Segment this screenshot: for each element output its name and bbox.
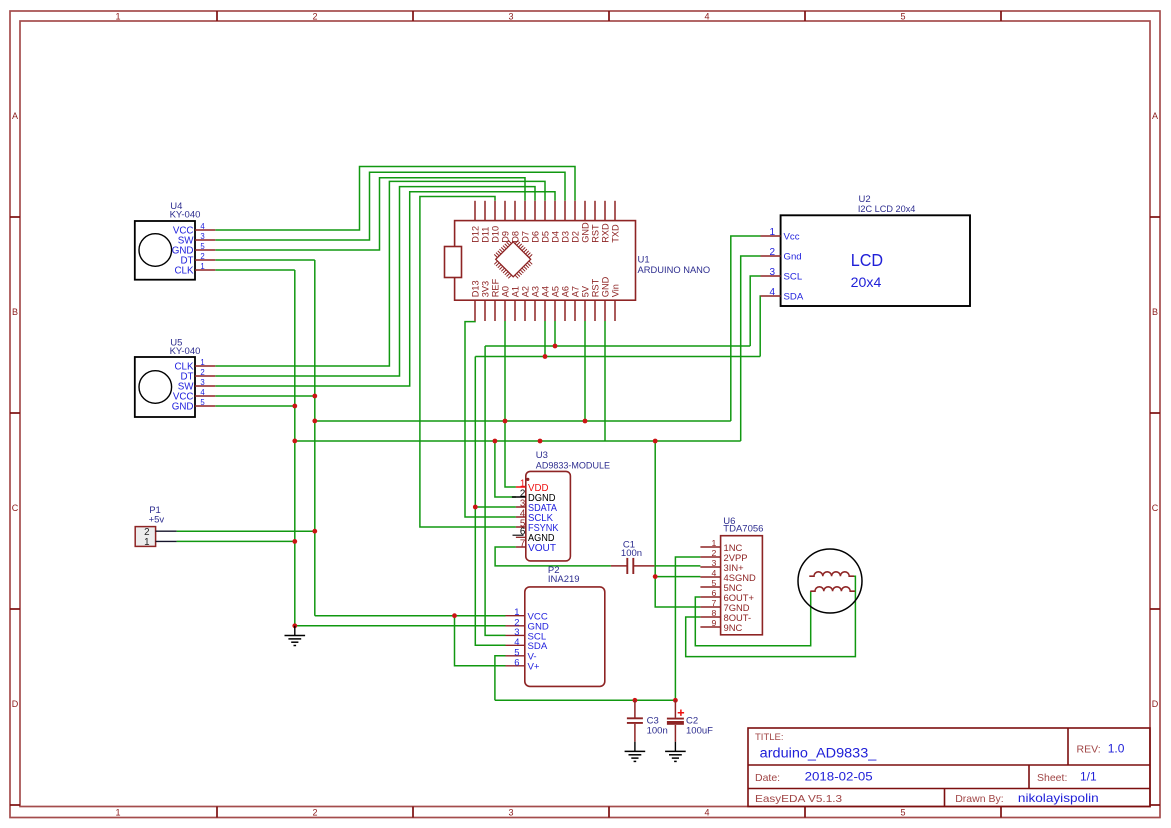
svg-text:1/1: 1/1 bbox=[1080, 770, 1097, 784]
U6 pin 7 7GND bbox=[700, 606, 720, 608]
svg-text:C: C bbox=[1152, 503, 1159, 513]
svg-text:arduino_AD9833_: arduino_AD9833_ bbox=[760, 746, 877, 761]
svg-text:Drawn By:: Drawn By: bbox=[955, 793, 1003, 805]
U4 pin 3 SW bbox=[195, 239, 215, 241]
U6 pin 3 3IN+ bbox=[700, 566, 720, 568]
frame ruler tick right bbox=[1150, 216, 1160, 218]
U1 top pin D6 bbox=[534, 201, 536, 221]
svg-text:KY-040: KY-040 bbox=[170, 346, 201, 357]
U4 pin 5 GND bbox=[195, 249, 215, 251]
svg-text:TDA7056: TDA7056 bbox=[723, 524, 763, 535]
frame ruler tick top bbox=[804, 11, 806, 21]
svg-text:4: 4 bbox=[711, 568, 716, 578]
svg-text:D8: D8 bbox=[511, 231, 521, 243]
svg-text:A2: A2 bbox=[521, 286, 531, 297]
svg-text:100uF: 100uF bbox=[686, 726, 713, 737]
U1 top pin TXD bbox=[614, 201, 616, 221]
svg-text:B: B bbox=[12, 307, 18, 317]
svg-text:D4: D4 bbox=[551, 231, 561, 243]
svg-text:RST: RST bbox=[591, 224, 601, 243]
U2 pin 3 SCL bbox=[761, 275, 781, 277]
frame ruler tick bottom bbox=[216, 807, 218, 818]
wire VDD net horizontal y=421 bbox=[315, 420, 731, 422]
wire to P2.GND bbox=[295, 625, 506, 627]
wire U6.8OUT- to LS1 top coil bbox=[686, 576, 856, 656]
U4 pin 2 DT bbox=[195, 259, 215, 261]
svg-text:SDA: SDA bbox=[528, 641, 548, 652]
svg-text:GND: GND bbox=[172, 401, 194, 412]
U3 pin 3 SDATA bbox=[516, 506, 526, 508]
U3 pin 1 VDD bbox=[516, 486, 526, 488]
svg-text:4: 4 bbox=[200, 222, 205, 231]
svg-text:4: 4 bbox=[514, 636, 519, 647]
svg-text:D: D bbox=[1152, 699, 1159, 709]
wire U4.SW to U1.D3 bbox=[215, 172, 565, 240]
U1 top pin D10 bbox=[494, 201, 496, 221]
svg-text:D7: D7 bbox=[521, 231, 531, 243]
frame ruler tick top bbox=[412, 11, 414, 21]
U1 top pin D5 bbox=[544, 201, 546, 221]
wire P1.1 to GND-column bbox=[177, 540, 295, 542]
ground below C2 bbox=[674, 742, 676, 752]
junction bbox=[538, 439, 543, 444]
wire SCL net vertical to P2.SCL bbox=[485, 346, 505, 635]
svg-text:A3: A3 bbox=[531, 286, 541, 297]
frame ruler tick top bbox=[1000, 11, 1002, 21]
wire U1.A5 down bbox=[554, 321, 556, 346]
svg-text:6: 6 bbox=[514, 656, 519, 667]
wire U5.SW to U1.D4 bbox=[215, 192, 555, 386]
junction bbox=[312, 419, 317, 424]
svg-text:A4: A4 bbox=[541, 286, 551, 297]
svg-text:D5: D5 bbox=[541, 231, 551, 243]
U6 pin 8 8OUT- bbox=[700, 616, 720, 618]
svg-text:2: 2 bbox=[770, 247, 776, 258]
svg-text:3V3: 3V3 bbox=[481, 281, 491, 297]
connector P1 +5v body bbox=[135, 527, 155, 547]
P2 pin 2 GND bbox=[506, 625, 525, 627]
amplifier U6 TDA7056 body bbox=[721, 536, 763, 635]
junction bbox=[543, 354, 548, 359]
svg-text:D12: D12 bbox=[471, 226, 481, 243]
frame ruler tick left bbox=[10, 608, 20, 610]
svg-text:A1: A1 bbox=[511, 286, 521, 297]
svg-text:EasyEDA V5.1.3: EasyEDA V5.1.3 bbox=[755, 793, 842, 805]
svg-text:D11: D11 bbox=[481, 227, 491, 243]
junction bbox=[583, 419, 588, 424]
svg-text:REV:: REV: bbox=[1077, 744, 1101, 756]
U2 pin 1 Vcc bbox=[761, 235, 781, 237]
wire SDA net horizontal y=356.5 bbox=[475, 356, 760, 358]
svg-text:D13: D13 bbox=[471, 280, 481, 297]
frame ruler tick right bbox=[1150, 412, 1160, 414]
wire U4.GND to U1.D7 bbox=[215, 178, 525, 250]
svg-text:2: 2 bbox=[711, 548, 716, 558]
U1 crystal rectangle bbox=[445, 247, 462, 278]
wire U4.CLK horizontal bbox=[215, 269, 294, 271]
svg-text:7: 7 bbox=[520, 539, 525, 550]
U4 knob circle bbox=[139, 234, 172, 267]
wire GND net to U6.7GND bbox=[655, 441, 700, 607]
svg-text:1: 1 bbox=[200, 358, 204, 367]
svg-text:D6: D6 bbox=[531, 231, 541, 243]
svg-text:3: 3 bbox=[770, 267, 776, 278]
svg-text:AD9833-MODULE: AD9833-MODULE bbox=[536, 460, 610, 471]
svg-text:1: 1 bbox=[770, 227, 776, 238]
svg-text:D: D bbox=[12, 699, 19, 709]
svg-text:2: 2 bbox=[200, 368, 204, 377]
P2 pin 6 V+ bbox=[506, 665, 525, 667]
junction bbox=[653, 574, 658, 579]
wire U1.D10 to U3.FSYNK bbox=[420, 197, 516, 528]
capacitor C1 plates bbox=[626, 558, 628, 574]
wire U1.GND down bbox=[604, 321, 606, 441]
svg-text:9: 9 bbox=[711, 618, 716, 628]
svg-text:RXD: RXD bbox=[601, 223, 611, 243]
wire U3.VOUT to C1 bbox=[495, 547, 611, 566]
svg-text:5: 5 bbox=[200, 398, 205, 407]
svg-text:Vin: Vin bbox=[611, 284, 621, 297]
U1 top pin RXD bbox=[604, 201, 606, 221]
svg-text:2018-02-05: 2018-02-05 bbox=[805, 770, 873, 784]
wire GND net to U6.4SGND bbox=[655, 576, 700, 578]
wire U1.D13 to U3.SCLK bbox=[465, 321, 516, 517]
wire P2.VCC row to P2.V+ bbox=[455, 616, 506, 666]
wire U5.CLK to U1.D5 bbox=[215, 181, 545, 366]
wire U1.A4 down bbox=[544, 321, 546, 357]
wire SCL net horizontal y=346 bbox=[485, 345, 750, 347]
P2 pin 1 VCC bbox=[506, 615, 525, 617]
title block border bbox=[748, 728, 1150, 807]
svg-text:GND: GND bbox=[581, 222, 591, 243]
junction bbox=[493, 439, 498, 444]
U5 pin 5 GND bbox=[195, 405, 215, 407]
wire SDA net to U3.SDATA bbox=[475, 506, 516, 508]
junction bbox=[452, 613, 457, 618]
frame ruler tick bottom bbox=[804, 807, 806, 818]
op-amp U1 ARDUINO NANO body bbox=[455, 221, 636, 301]
capacitor C2 polarized bbox=[674, 700, 676, 718]
svg-text:5: 5 bbox=[200, 242, 205, 251]
frame ruler tick right bbox=[1150, 608, 1160, 610]
wire U5.GND to GND-column bbox=[215, 405, 294, 407]
U5 pin 4 VCC bbox=[195, 395, 215, 397]
U1 bottom pin A0 bbox=[504, 300, 506, 321]
frame ruler tick bottom bbox=[1000, 807, 1002, 818]
U1 top pin D3 bbox=[564, 201, 566, 221]
svg-text:2: 2 bbox=[312, 12, 317, 22]
svg-text:nikolayispolin: nikolayispolin bbox=[1018, 791, 1099, 805]
U1 top pin D4 bbox=[554, 201, 556, 221]
svg-text:C: C bbox=[12, 503, 19, 513]
wire GND net to U2.Gnd bbox=[741, 256, 761, 441]
svg-text:Sheet:: Sheet: bbox=[1037, 772, 1067, 784]
wire to P2.VCC bbox=[315, 615, 506, 617]
U6 pin 6 6OUT+ bbox=[700, 596, 720, 598]
svg-text:6: 6 bbox=[711, 588, 716, 598]
U3 pin1 marker dot bbox=[526, 478, 529, 481]
svg-text:4: 4 bbox=[704, 808, 709, 818]
svg-text:A6: A6 bbox=[561, 286, 571, 297]
svg-text:KY-040: KY-040 bbox=[170, 210, 201, 221]
U1 bottom pin 3V3 bbox=[484, 300, 486, 321]
svg-text:TXD: TXD bbox=[611, 224, 621, 243]
svg-text:100n: 100n bbox=[647, 726, 668, 737]
U5 knob circle bbox=[139, 371, 172, 404]
P2 pin 4 SDA bbox=[506, 644, 525, 646]
frame ruler tick bottom bbox=[412, 807, 414, 818]
P1 pin 2 bbox=[156, 530, 177, 532]
svg-text:GND: GND bbox=[601, 276, 611, 297]
P2 pin 5 V- bbox=[506, 655, 525, 657]
svg-text:7: 7 bbox=[711, 598, 716, 608]
wire U5.VCC to VCC-column bbox=[215, 395, 314, 397]
svg-text:2: 2 bbox=[312, 808, 317, 818]
frame ruler tick left bbox=[10, 804, 20, 806]
wire SCL net to U2.SCL bbox=[750, 276, 760, 346]
U1 chip diamond bbox=[496, 242, 531, 277]
wire U6.2VPP down to cap rail bbox=[675, 557, 700, 700]
svg-text:1: 1 bbox=[200, 262, 204, 271]
capacitor C1 lead left bbox=[611, 565, 627, 567]
junction bbox=[673, 698, 678, 703]
junction bbox=[312, 394, 317, 399]
U3 pin 5 FSYNK bbox=[516, 526, 526, 528]
wire P1.2 to VCC-column bbox=[177, 530, 315, 532]
wire U6.6OUT+ to LS1 bottom coil bbox=[695, 591, 810, 646]
wire cap rail y=700.3 bbox=[495, 699, 676, 701]
U6 pin 2 2VPP bbox=[700, 556, 720, 558]
svg-text:SDA: SDA bbox=[784, 291, 804, 302]
svg-text:RST: RST bbox=[591, 278, 601, 297]
junction bbox=[312, 529, 317, 534]
connector U4 KY-040 body bbox=[135, 221, 195, 280]
P2 pin 3 SCL bbox=[506, 634, 525, 636]
svg-text:ARDUINO NANO: ARDUINO NANO bbox=[638, 265, 711, 276]
connector U5 KY-040 body bbox=[135, 357, 195, 417]
wire P2.V- to cap rail bbox=[495, 656, 506, 701]
wire GND net to U3.DGND bbox=[495, 441, 516, 497]
U1 bottom pin A3 bbox=[534, 300, 536, 321]
U6 pin 4 4SGND bbox=[700, 576, 720, 578]
svg-text:B: B bbox=[1152, 307, 1158, 317]
U1 bottom pin GND bbox=[604, 300, 606, 321]
svg-text:1: 1 bbox=[711, 538, 716, 548]
svg-text:Date:: Date: bbox=[755, 772, 780, 784]
U1 top pin D9 bbox=[504, 201, 506, 221]
svg-text:9NC: 9NC bbox=[724, 622, 743, 633]
junction bbox=[292, 539, 297, 544]
U6 pin 5 5NC bbox=[700, 586, 720, 588]
svg-text:LCD: LCD bbox=[851, 250, 883, 270]
frame ruler tick left bbox=[10, 412, 20, 414]
wire U5.DT to U1.D6 bbox=[215, 187, 535, 376]
U3 pin 2 DGND bbox=[512, 496, 526, 498]
svg-text:3: 3 bbox=[508, 808, 513, 818]
junction bbox=[473, 505, 478, 510]
svg-text:1: 1 bbox=[144, 537, 149, 548]
wire vertical net VCC-column x=314.8 bbox=[314, 260, 316, 616]
svg-text:3: 3 bbox=[711, 558, 716, 568]
svg-text:5: 5 bbox=[900, 12, 905, 22]
svg-text:1: 1 bbox=[115, 12, 120, 22]
C2 plus sign bbox=[678, 710, 684, 716]
wire U1.A0 to U3.VDD bbox=[505, 321, 516, 487]
ground below C3 bbox=[634, 742, 636, 752]
svg-text:SCL: SCL bbox=[784, 271, 803, 282]
speaker LS1 circle bbox=[798, 549, 862, 613]
U1 bottom pin A6 bbox=[564, 300, 566, 321]
frame ruler tick bottom bbox=[608, 807, 610, 818]
wire SDA net to U2.SDA bbox=[759, 296, 761, 357]
svg-text:1.0: 1.0 bbox=[1108, 742, 1125, 756]
junction bbox=[292, 623, 297, 628]
U4 pin 1 CLK bbox=[195, 269, 215, 271]
junction bbox=[653, 439, 658, 444]
svg-text:A7: A7 bbox=[571, 286, 581, 297]
U4 pin 4 VCC bbox=[195, 229, 215, 231]
U6 pin 1 1NC bbox=[700, 546, 720, 548]
svg-text:Gnd: Gnd bbox=[784, 251, 802, 262]
svg-text:D2: D2 bbox=[571, 231, 581, 243]
svg-text:D3: D3 bbox=[561, 231, 571, 243]
U1 bottom pin A4 bbox=[544, 300, 546, 321]
svg-text:I2C LCD 20x4: I2C LCD 20x4 bbox=[858, 204, 916, 215]
module P2 INA219 body bbox=[525, 587, 605, 687]
U1 bottom pin A2 bbox=[524, 300, 526, 321]
U1 bottom pin 5V bbox=[584, 300, 586, 321]
U3 pin 7 VOUT bbox=[516, 546, 526, 548]
junction bbox=[633, 698, 638, 703]
svg-text:2: 2 bbox=[200, 252, 204, 261]
frame ruler tick left bbox=[10, 216, 20, 218]
wire U4.DT horizontal bbox=[215, 259, 314, 261]
svg-text:A: A bbox=[12, 111, 18, 121]
svg-text:5V: 5V bbox=[581, 285, 591, 297]
junction bbox=[292, 439, 297, 444]
svg-text:4: 4 bbox=[704, 12, 709, 22]
U5 pin 1 CLK bbox=[195, 365, 215, 367]
wire U1.5V down bbox=[584, 321, 586, 421]
LS1 top coil bbox=[809, 572, 854, 576]
U1 top pin D8 bbox=[514, 201, 516, 221]
wire vertical net GND-column x=294.8 bbox=[294, 270, 296, 626]
U3 pin 6 overline bbox=[513, 534, 524, 536]
frame ruler tick right bbox=[1150, 804, 1160, 806]
svg-text:100n: 100n bbox=[621, 548, 642, 559]
wire SDA net vertical to P2.SDA bbox=[475, 357, 505, 646]
svg-text:4: 4 bbox=[200, 388, 205, 397]
U1 top pin D12 bbox=[474, 201, 476, 221]
svg-text:4: 4 bbox=[770, 287, 776, 298]
svg-text:INA219: INA219 bbox=[548, 574, 580, 585]
svg-text:CLK: CLK bbox=[174, 265, 194, 276]
capacitor C1 lead right bbox=[634, 565, 655, 567]
U1 bottom pin RST bbox=[594, 300, 596, 321]
ground at GND column bbox=[294, 626, 296, 636]
U1 top pin D7 bbox=[524, 201, 526, 221]
LS1 bottom coil bbox=[810, 587, 855, 591]
wire VDD net to U2.Vcc bbox=[731, 236, 761, 421]
svg-text:6: 6 bbox=[520, 527, 526, 538]
capacitor C3 bbox=[634, 700, 636, 718]
U1 bottom pin A1 bbox=[514, 300, 516, 321]
svg-text:TITLE:: TITLE: bbox=[755, 732, 784, 743]
svg-text:D10: D10 bbox=[491, 226, 501, 243]
svg-text:5: 5 bbox=[711, 578, 716, 588]
U1 top pin RST bbox=[594, 201, 596, 221]
svg-text:3: 3 bbox=[508, 12, 513, 22]
U1 top pin D2 bbox=[574, 201, 576, 221]
P1 pin 1 bbox=[156, 540, 177, 542]
svg-text:+5v: +5v bbox=[149, 515, 165, 526]
svg-text:8: 8 bbox=[711, 608, 716, 618]
svg-text:A: A bbox=[1152, 111, 1158, 121]
svg-text:5: 5 bbox=[900, 808, 905, 818]
U1 chip diamond pins bbox=[494, 240, 532, 278]
U1 bottom pin A7 bbox=[574, 300, 576, 321]
junction bbox=[292, 404, 297, 409]
svg-text:A5: A5 bbox=[551, 286, 561, 297]
U1 bottom pin Vin bbox=[614, 300, 616, 321]
svg-text:3: 3 bbox=[200, 232, 204, 241]
svg-text:REF: REF bbox=[491, 278, 501, 297]
U1 bottom pin D13 bbox=[474, 300, 476, 321]
U2 pin 4 SDA bbox=[761, 295, 781, 297]
svg-text:D9: D9 bbox=[501, 231, 511, 243]
module U3 AD9833-MODULE body bbox=[526, 471, 571, 561]
svg-text:Vcc: Vcc bbox=[784, 231, 800, 242]
frame ruler tick top bbox=[608, 11, 610, 21]
U6 pin 9 9NC bbox=[700, 626, 720, 628]
U5 pin 2 DT bbox=[195, 375, 215, 377]
U1 bottom pin REF bbox=[494, 300, 496, 321]
U3 pin 6 AGND bbox=[516, 536, 526, 538]
frame ruler tick top bbox=[216, 11, 218, 21]
U1 bottom pin A5 bbox=[554, 300, 556, 321]
svg-text:1: 1 bbox=[115, 808, 120, 818]
U1 top pin D11 bbox=[484, 201, 486, 221]
U5 pin 3 SW bbox=[195, 385, 215, 387]
svg-text:A0: A0 bbox=[501, 286, 511, 297]
wire C1 to U6.3IN+ bbox=[654, 565, 700, 567]
U2 pin 2 Gnd bbox=[761, 255, 781, 257]
svg-text:20x4: 20x4 bbox=[851, 274, 882, 290]
wire U4.VCC to U1.D2 bbox=[215, 167, 575, 231]
svg-text:V+: V+ bbox=[528, 662, 540, 673]
U1 top pin GND bbox=[584, 201, 586, 221]
svg-text:3: 3 bbox=[200, 378, 204, 387]
svg-text:VOUT: VOUT bbox=[528, 543, 556, 554]
junction bbox=[553, 344, 558, 349]
junction bbox=[503, 419, 508, 424]
wire GND net horizontal y=441 bbox=[295, 440, 741, 442]
display U2 I2C LCD 20x4 body bbox=[781, 215, 970, 306]
U3 pin 4 SCLK bbox=[516, 516, 526, 518]
